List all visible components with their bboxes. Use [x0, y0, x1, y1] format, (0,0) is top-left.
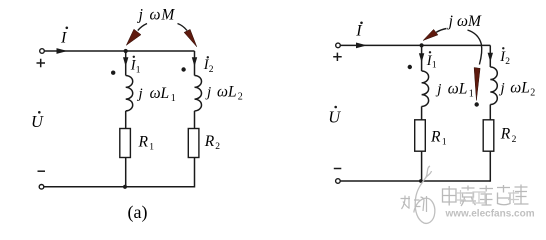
arrow: mutual coupling arrow to dotted terminal of L2 circuit b — [468, 30, 482, 101]
wire: bottom wire circuit a — [44, 186, 195, 188]
wire: branch 1 lower segment circuit a — [125, 158, 127, 187]
label: phasor I circuit a — [60, 27, 68, 47]
svg-text:1: 1 — [149, 143, 154, 153]
wire: branch 1 between L1 and R1 circuit a — [125, 111, 127, 129]
wire: branch 1 upper segment circuit a — [125, 51, 127, 76]
svg-text:ωL: ωL — [217, 84, 237, 101]
label: phasor I circuit b — [355, 22, 363, 40]
svg-text:R: R — [138, 133, 149, 150]
label: phasor U source voltage circuit b — [328, 106, 341, 127]
inductor L2 circuit b — [490, 67, 497, 105]
wire: branch 2 upper segment circuit a — [194, 51, 196, 76]
svg-text:j: j — [205, 85, 211, 101]
label: - polarity sign circuit b — [334, 168, 342, 170]
arrow: current I direction arrow circuit a — [57, 48, 68, 54]
value label: R1 circuit b — [430, 128, 447, 147]
watermark: zhihu glyphs — [401, 196, 427, 213]
svg-text:www.elecfans.com: www.elecfans.com — [445, 209, 535, 220]
svg-text:2: 2 — [209, 65, 214, 75]
arrow: mutual coupling arrow to branch 1 circuit a — [126, 24, 147, 46]
wire: branch 2 lower segment circuit a — [194, 158, 196, 188]
watermark: elecfans chinese text row — [443, 185, 529, 207]
label: phasor I2 circuit a — [203, 56, 214, 75]
svg-text:ωL: ωL — [510, 80, 530, 97]
svg-text:U: U — [31, 112, 44, 131]
inductor L1 circuit a — [126, 76, 133, 111]
wire: bottom wire circuit b — [340, 180, 491, 182]
arrow: current I direction arrow circuit b — [356, 43, 367, 49]
value label: R2 circuit a — [204, 133, 221, 152]
wire: branch 1 lower segment circuit b — [421, 151, 423, 181]
value label: j omega L2 circuit b — [499, 80, 536, 99]
svg-text:2: 2 — [215, 142, 220, 152]
node: junction of branch 1 with bottom wire, circuit b — [419, 179, 423, 183]
svg-text:1: 1 — [442, 138, 447, 148]
label: phasor U source voltage circuit a — [31, 111, 44, 131]
wire: branch 2 between L2 and R2 circuit a — [194, 111, 196, 129]
svg-text:I: I — [355, 23, 362, 40]
resistor R1 circuit a — [120, 129, 131, 158]
resistor R2 circuit b — [483, 120, 494, 151]
inductor L1 circuit b — [422, 71, 429, 106]
node: junction of branch 1 with top wire, circuit b — [420, 43, 424, 47]
watermark: scribble loop — [414, 166, 435, 223]
polarity dot: dotted terminal of L1 circuit b — [408, 65, 412, 69]
svg-text:ωL: ωL — [448, 81, 468, 98]
arrow: current I1 direction arrow circuit b — [419, 53, 424, 62]
svg-text:j: j — [137, 7, 143, 24]
node: junction of branch 1 with top wire, circuit a — [124, 49, 128, 53]
svg-text:2: 2 — [505, 57, 510, 67]
label: + polarity sign circuit a — [37, 59, 46, 67]
arrow: current I2 direction arrow circuit a — [192, 57, 197, 66]
value label: R2 circuit b — [500, 126, 517, 145]
svg-text:I: I — [60, 30, 67, 47]
value label: j omega M mutual inductance circuit b — [447, 13, 482, 30]
value label: j omega L2 circuit a — [205, 84, 243, 103]
label: phasor I1 circuit b — [426, 51, 437, 71]
wire: branch 1 between L1 and R1 circuit b — [421, 106, 423, 119]
value label: j omega L1 circuit a — [137, 85, 176, 104]
label: sub-figure caption (a) — [128, 202, 148, 223]
terminal: - input terminal circuit b — [336, 179, 341, 184]
node: junction of branch 1 with bottom wire, circuit a — [123, 185, 127, 189]
svg-text:R: R — [430, 128, 441, 145]
svg-text:2: 2 — [512, 135, 517, 145]
svg-text:(a): (a) — [128, 202, 148, 223]
arrow: current I1 direction arrow circuit a — [123, 57, 128, 66]
label: + polarity sign circuit b — [333, 53, 342, 61]
arrow: current I2 direction arrow circuit b — [488, 53, 493, 62]
wire: branch 2 between L2 and R2 circuit b — [489, 105, 491, 120]
svg-text:1: 1 — [171, 93, 176, 104]
svg-text:1: 1 — [432, 61, 437, 71]
svg-text:j: j — [435, 82, 441, 98]
svg-text:R: R — [500, 126, 511, 143]
svg-text:ωM: ωM — [457, 13, 482, 30]
wire: branch 2 lower segment circuit b — [489, 151, 491, 182]
polarity dot: dotted terminal of L2 circuit b — [475, 102, 479, 106]
label: phasor I1 circuit a — [130, 56, 141, 76]
resistor R2 circuit a — [188, 129, 199, 158]
resistor R1 circuit b — [415, 120, 426, 151]
value label: j omega L1 circuit b — [435, 81, 474, 100]
inductor L2 circuit a — [195, 76, 202, 111]
wire: branch 1 upper segment circuit b — [421, 45, 423, 71]
terminal: + input terminal circuit a — [40, 49, 45, 54]
wire: top wire circuit a — [45, 50, 195, 52]
value label: R1 circuit a — [138, 133, 155, 152]
svg-text:R: R — [204, 133, 215, 150]
terminal: + input terminal circuit b — [336, 43, 341, 48]
polarity dot: dotted terminal of L2 circuit a — [181, 67, 185, 71]
wire: branch 2 upper segment circuit b — [489, 45, 491, 67]
label: - polarity sign circuit a — [38, 170, 46, 172]
svg-text:ωL: ωL — [150, 85, 170, 102]
label: phasor I2 circuit b — [499, 47, 510, 67]
svg-text:1: 1 — [136, 65, 141, 75]
arrow: mutual coupling arrow to branch 2 circuit a — [178, 24, 197, 47]
svg-text:ωM: ωM — [150, 7, 176, 24]
svg-text:U: U — [328, 108, 341, 127]
svg-text:2: 2 — [530, 87, 535, 98]
svg-text:j: j — [447, 13, 453, 30]
arrow: mutual coupling arrow to branch 1 junction circuit b — [423, 29, 447, 41]
value label: j omega M mutual inductance circuit a — [137, 7, 176, 24]
svg-text:1: 1 — [469, 88, 474, 99]
svg-text:j: j — [499, 81, 505, 97]
terminal: - input terminal circuit a — [39, 185, 44, 190]
watermark: www.elecfans.com url — [445, 209, 535, 220]
svg-text:2: 2 — [238, 91, 243, 102]
wire: top wire circuit b — [340, 44, 490, 46]
watermark: overlapping ghost glyphs — [455, 190, 519, 204]
svg-text:j: j — [137, 86, 143, 102]
polarity dot: dotted terminal of L1 circuit a — [111, 71, 115, 75]
